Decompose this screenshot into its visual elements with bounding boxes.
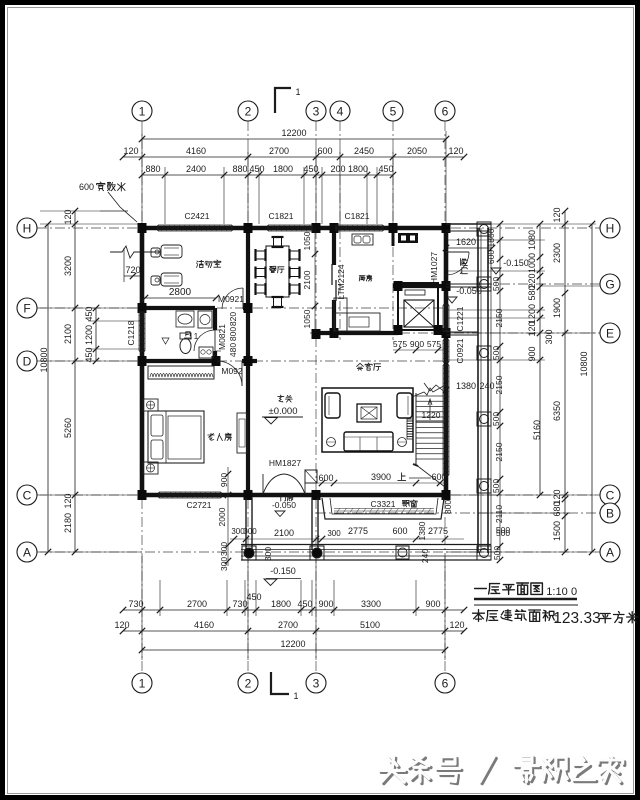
svg-text:600: 600 xyxy=(317,146,332,156)
svg-text:A: A xyxy=(23,545,31,559)
svg-text:A: A xyxy=(606,545,614,559)
svg-text:M0821: M0821 xyxy=(217,324,227,350)
svg-text:900: 900 xyxy=(527,346,537,361)
svg-text:C0921: C0921 xyxy=(455,338,465,363)
svg-text:450: 450 xyxy=(297,599,312,609)
svg-text:240: 240 xyxy=(420,549,430,563)
svg-text:5100: 5100 xyxy=(360,620,380,630)
svg-text:5: 5 xyxy=(390,104,397,118)
svg-text:12200: 12200 xyxy=(280,639,305,649)
svg-text:300: 300 xyxy=(327,529,341,538)
svg-text:2700: 2700 xyxy=(187,599,207,609)
svg-text:1220: 1220 xyxy=(422,410,441,420)
svg-text:1200: 1200 xyxy=(527,304,537,324)
svg-text:900: 900 xyxy=(425,599,440,609)
svg-text:730: 730 xyxy=(128,599,143,609)
svg-text:600: 600 xyxy=(392,526,407,536)
svg-text:800: 800 xyxy=(443,500,453,514)
svg-text:500: 500 xyxy=(496,528,510,538)
svg-text:C: C xyxy=(23,488,32,502)
svg-text:123.33: 123.33 xyxy=(553,610,600,627)
svg-text:±0.000: ±0.000 xyxy=(269,406,298,417)
svg-text:C1221: C1221 xyxy=(455,306,465,331)
svg-text:2100: 2100 xyxy=(274,528,294,538)
svg-text:1800: 1800 xyxy=(271,599,291,609)
svg-text:2050: 2050 xyxy=(407,146,427,156)
svg-text:580: 580 xyxy=(527,285,537,300)
svg-text:500: 500 xyxy=(491,346,501,360)
svg-text:450: 450 xyxy=(246,592,261,602)
svg-text:D: D xyxy=(23,354,32,368)
svg-text:M0921: M0921 xyxy=(218,294,244,304)
svg-text:1380: 1380 xyxy=(456,381,476,391)
svg-text:2100: 2100 xyxy=(63,324,73,344)
svg-text:450: 450 xyxy=(84,306,94,321)
svg-text:3300: 3300 xyxy=(361,599,381,609)
svg-text:120: 120 xyxy=(448,146,463,156)
svg-text:1050: 1050 xyxy=(302,231,312,250)
svg-text:800: 800 xyxy=(228,327,238,341)
svg-text:-0.150: -0.150 xyxy=(503,258,529,268)
svg-text:10800: 10800 xyxy=(39,347,49,372)
svg-text:C2421: C2421 xyxy=(184,211,209,221)
svg-text:500: 500 xyxy=(492,546,502,560)
svg-text:680: 680 xyxy=(552,501,562,516)
svg-text:120: 120 xyxy=(527,321,537,336)
svg-text:2: 2 xyxy=(245,104,252,118)
svg-text:1050: 1050 xyxy=(302,309,312,328)
svg-text:12200: 12200 xyxy=(281,128,306,138)
svg-text:880: 880 xyxy=(232,164,247,174)
svg-text:120: 120 xyxy=(63,209,73,224)
svg-text:1800: 1800 xyxy=(273,164,293,174)
svg-text:450: 450 xyxy=(249,164,264,174)
svg-text:1900: 1900 xyxy=(552,298,562,318)
svg-text:600: 600 xyxy=(318,473,333,483)
svg-text:HM1027: HM1027 xyxy=(429,252,439,284)
svg-text:C: C xyxy=(606,488,615,502)
svg-text:2775: 2775 xyxy=(348,526,368,536)
svg-text:1: 1 xyxy=(139,104,146,118)
svg-text:4: 4 xyxy=(337,104,344,118)
svg-text:-0.150: -0.150 xyxy=(270,566,296,576)
svg-text:450: 450 xyxy=(378,164,393,174)
svg-text:-0.050: -0.050 xyxy=(272,500,296,510)
svg-text:1200: 1200 xyxy=(84,325,94,345)
svg-text:500: 500 xyxy=(491,479,501,493)
svg-text:1: 1 xyxy=(295,87,300,97)
svg-text:300: 300 xyxy=(544,329,554,344)
svg-text:0: 0 xyxy=(571,586,577,598)
svg-text:500: 500 xyxy=(491,277,501,291)
svg-text:C3321: C3321 xyxy=(370,499,395,509)
svg-text:1: 1 xyxy=(139,676,146,690)
svg-text:10800: 10800 xyxy=(579,351,589,376)
svg-text:2150: 2150 xyxy=(494,375,504,394)
svg-text:120: 120 xyxy=(114,620,129,630)
svg-text:4160: 4160 xyxy=(194,620,214,630)
svg-text:C1821: C1821 xyxy=(268,211,293,221)
svg-text:575: 575 xyxy=(427,339,441,349)
svg-text:2100: 2100 xyxy=(302,270,312,289)
svg-text:120: 120 xyxy=(63,493,73,508)
svg-text:300: 300 xyxy=(219,542,229,556)
svg-text:2110: 2110 xyxy=(494,505,504,524)
svg-text:C1821: C1821 xyxy=(344,211,369,221)
svg-text:E: E xyxy=(606,326,614,340)
svg-text:450: 450 xyxy=(84,347,94,362)
svg-text:240: 240 xyxy=(479,381,494,391)
svg-text:600: 600 xyxy=(431,472,446,482)
svg-text:900: 900 xyxy=(318,599,333,609)
svg-text:2: 2 xyxy=(245,676,252,690)
svg-text:120: 120 xyxy=(552,207,562,222)
svg-text:LTM2124: LTM2124 xyxy=(336,264,346,300)
svg-text:720: 720 xyxy=(125,265,140,275)
svg-text:600: 600 xyxy=(79,182,94,192)
svg-text:F: F xyxy=(23,301,30,315)
svg-text:300: 300 xyxy=(263,547,273,561)
svg-text:2400: 2400 xyxy=(186,164,206,174)
svg-text:120: 120 xyxy=(123,146,138,156)
svg-text:2150: 2150 xyxy=(494,442,504,461)
svg-text:5160: 5160 xyxy=(532,420,542,440)
svg-text:3200: 3200 xyxy=(63,256,73,276)
svg-text:200: 200 xyxy=(330,164,345,174)
svg-text:C2721: C2721 xyxy=(186,500,211,510)
svg-text:1620: 1620 xyxy=(456,237,476,247)
svg-text:H: H xyxy=(606,221,615,235)
svg-text:H: H xyxy=(23,221,32,235)
svg-text:2180: 2180 xyxy=(63,513,73,533)
svg-text:1: 1 xyxy=(293,691,298,701)
svg-text:2000: 2000 xyxy=(217,507,227,526)
svg-text:1500: 1500 xyxy=(552,521,562,541)
svg-text:3: 3 xyxy=(313,104,320,118)
svg-text:1: 1 xyxy=(194,332,199,341)
svg-text:480: 480 xyxy=(228,343,238,357)
svg-text:3: 3 xyxy=(313,676,320,690)
svg-text:4160: 4160 xyxy=(186,146,206,156)
svg-text:2800: 2800 xyxy=(169,287,192,298)
svg-text:2700: 2700 xyxy=(269,146,289,156)
svg-text:1800: 1800 xyxy=(348,164,368,174)
svg-text:1:10: 1:10 xyxy=(546,586,567,598)
svg-text:6350: 6350 xyxy=(552,401,562,421)
svg-text:2700: 2700 xyxy=(278,620,298,630)
svg-text:900: 900 xyxy=(410,339,424,349)
svg-text:6: 6 xyxy=(442,104,449,118)
svg-text:HM1827: HM1827 xyxy=(269,458,301,468)
svg-text:500: 500 xyxy=(491,412,501,426)
svg-text:M092: M092 xyxy=(221,366,243,376)
svg-text:1380: 1380 xyxy=(417,521,427,540)
svg-text:2450: 2450 xyxy=(354,146,374,156)
svg-text:B: B xyxy=(606,506,614,520)
svg-text:820: 820 xyxy=(228,312,238,326)
svg-text:C1218: C1218 xyxy=(126,320,136,345)
svg-text:300: 300 xyxy=(219,557,229,571)
svg-text:3900: 3900 xyxy=(371,472,391,482)
svg-text:300: 300 xyxy=(243,527,257,536)
svg-text:880: 880 xyxy=(145,164,160,174)
svg-text:120: 120 xyxy=(449,620,464,630)
svg-text:6: 6 xyxy=(442,676,449,690)
svg-text:5260: 5260 xyxy=(63,418,73,438)
svg-text:G: G xyxy=(605,277,614,291)
svg-text:2775: 2775 xyxy=(428,526,448,536)
svg-text:2300: 2300 xyxy=(552,243,562,263)
